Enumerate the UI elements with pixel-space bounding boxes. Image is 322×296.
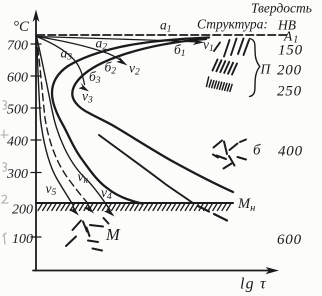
svg-text:Твердость: Твердость	[251, 1, 312, 16]
svg-text:400: 400	[278, 144, 303, 160]
svg-text:100: 100	[12, 232, 33, 247]
svg-text:П: П	[260, 62, 272, 77]
svg-text:М: М	[105, 225, 121, 244]
svg-text:500: 500	[7, 103, 28, 118]
svg-text:700: 700	[7, 39, 28, 54]
svg-text:150: 150	[278, 43, 303, 59]
svg-text:400: 400	[7, 135, 28, 150]
svg-text:Структура:: Структура:	[197, 17, 268, 32]
svg-text:200: 200	[277, 63, 302, 79]
svg-text:°C: °C	[13, 19, 30, 35]
svg-text:600: 600	[7, 71, 28, 86]
svg-text:б: б	[253, 143, 261, 159]
svg-text:600: 600	[277, 232, 302, 248]
svg-text:200: 200	[12, 203, 33, 218]
svg-text:250: 250	[277, 84, 302, 100]
svg-text:300: 300	[6, 167, 28, 182]
svg-text:lg τ: lg τ	[240, 276, 267, 293]
